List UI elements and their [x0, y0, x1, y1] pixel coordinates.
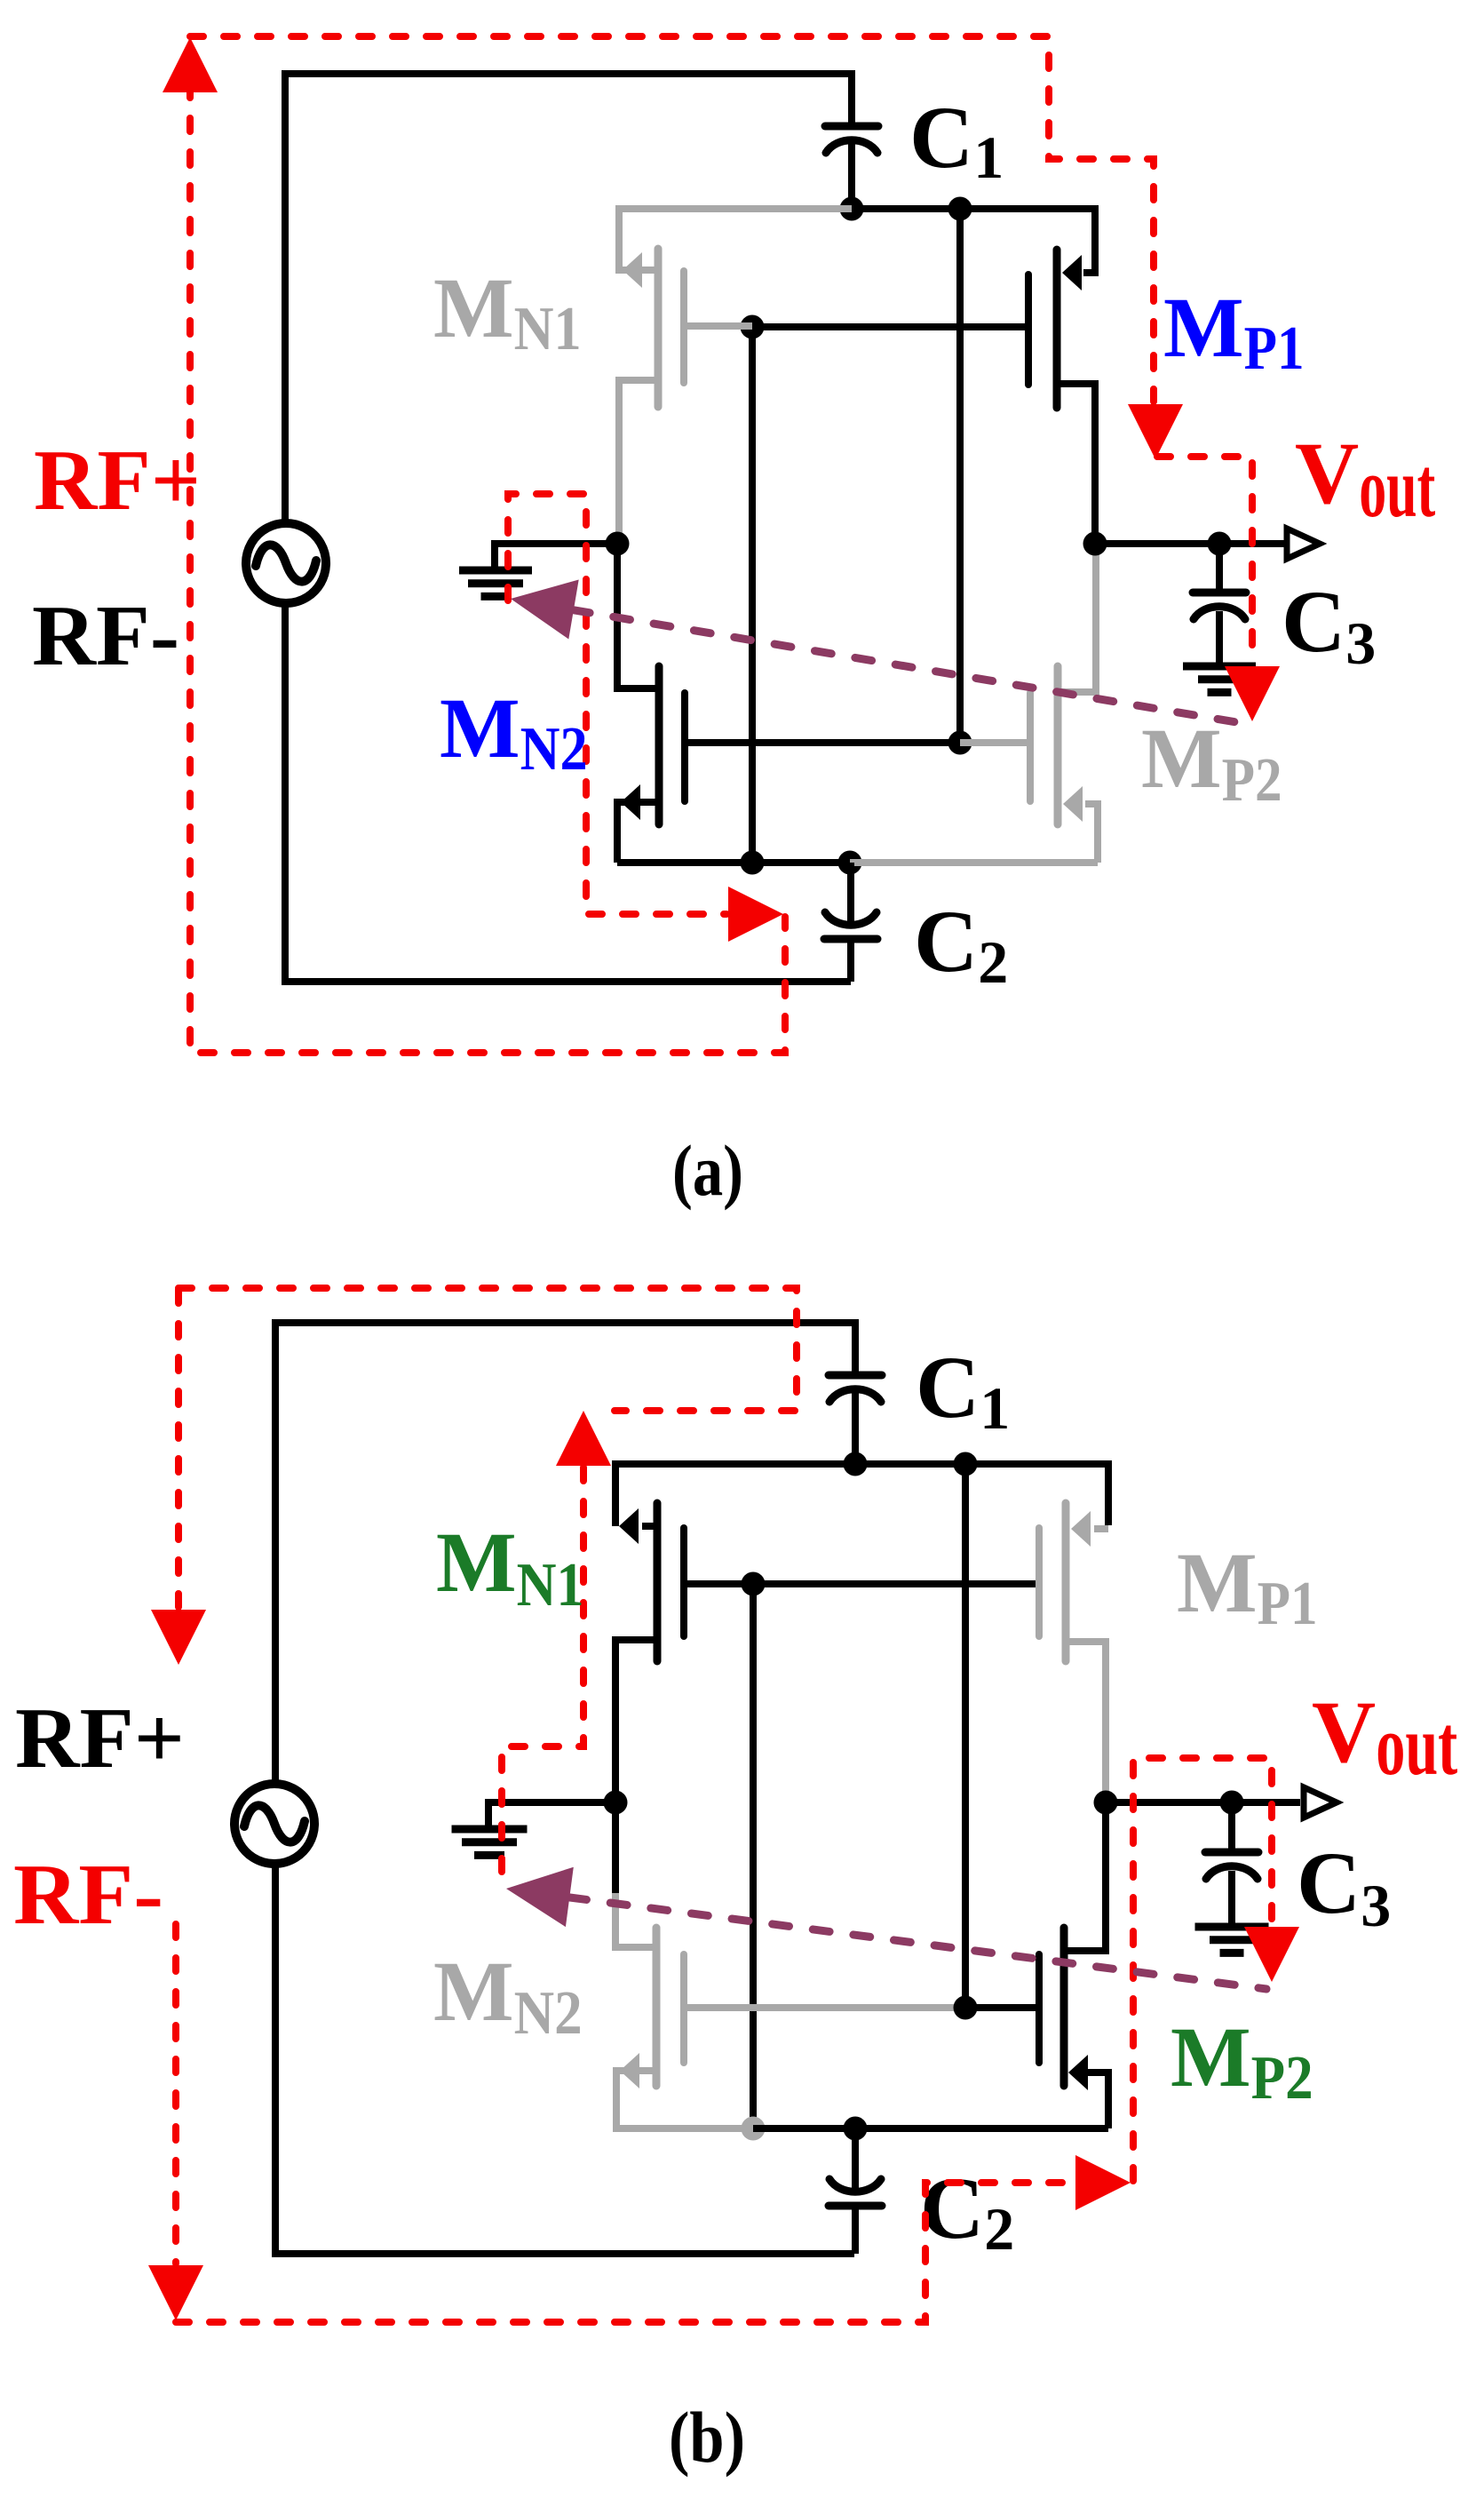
red path top loop b [179, 1288, 797, 1411]
capacitor C3 [1216, 544, 1223, 593]
capacitor C2 b [852, 2128, 859, 2191]
wire vertical x1081 (C1 to gate2) [956, 209, 964, 743]
transistor MN2 source arrow b (gray) [620, 2053, 639, 2088]
transistor MN2 b (gray, inactive) [653, 1928, 661, 2086]
wire MP2 gate b (black part) [965, 2004, 1039, 2011]
wire MP2 gate (gray part) [960, 739, 1030, 746]
node rail-C2 b [844, 2117, 868, 2141]
transistor MP2 gate bar b [1036, 1954, 1043, 2063]
wire MN1 gate b [684, 1580, 1039, 1587]
wire vertical x1087 b [962, 1464, 969, 2008]
svg-text:Vout: Vout [1295, 424, 1435, 535]
svg-text:MP2: MP2 [1171, 2009, 1313, 2112]
wire MP2 drain b [1064, 1802, 1106, 1951]
ground node [606, 532, 630, 556]
node C1 right b [954, 1452, 978, 1476]
node Vout-C3 b [1220, 1791, 1244, 1815]
svg-text:RF+: RF+ [15, 1691, 185, 1786]
node A b (gate1 junction) [742, 1572, 766, 1596]
red arrow into MP1 (down) [1128, 404, 1183, 459]
capacitor C2 [847, 863, 854, 924]
svg-text:RF+: RF+ [34, 433, 201, 528]
transistor MP1 gate bar [1025, 274, 1032, 385]
transistor Q MP1 source arrow [1062, 255, 1082, 290]
svg-text:C3: C3 [1282, 572, 1376, 677]
transistor MN2 source arrow [621, 784, 640, 820]
capacitor C1 b [829, 1372, 882, 1380]
svg-text:MN1: MN1 [436, 1515, 584, 1619]
wire Vout [1095, 540, 1286, 547]
svg-text:Vout: Vout [1312, 1683, 1457, 1793]
wire MP1 drain to Vout b (gray) [1066, 1642, 1106, 1798]
red arrow into C2 (right) [728, 887, 783, 942]
wire vertical x847 (C gate column) [749, 327, 756, 863]
red path RF+ b [175, 1290, 182, 1608]
transistor MN1 source arrow b [619, 1508, 639, 1544]
red path near ground / MN2 gate [508, 494, 726, 914]
ground symbol GND1 b [452, 1829, 528, 1855]
transistor MP1 source arrow b (gray) [1071, 1511, 1091, 1547]
red arrow RF- down b [148, 2265, 203, 2320]
AC source V_RF b [234, 1784, 314, 1864]
transistor MP2 source arrow b [1068, 2055, 1088, 2090]
svg-text:MN1: MN1 [433, 260, 582, 363]
wire ground node to MN2 drain b (black upper) [612, 1802, 619, 1893]
wire RF- bottom rail (source to C2) [285, 602, 851, 982]
red path RF- b [172, 1924, 179, 2263]
wire RF+ top rail (source to C1) [285, 74, 852, 524]
transistor MP2 channel b [1060, 1928, 1068, 2086]
red current path top (C1 to MP1) [190, 36, 1154, 402]
node rail-gate column b (gray) [742, 2117, 766, 2141]
wire MN1 top terminal b [642, 1523, 657, 1530]
ground symbol GND1 [459, 570, 532, 596]
purple arrowhead to ground [511, 580, 579, 640]
node rail-gate column [741, 851, 765, 875]
red arrow at C3 (down) [1225, 666, 1280, 721]
node Vout-C3 [1208, 532, 1232, 556]
wire MN2/MP2 gate line (black part) [685, 739, 960, 746]
svg-text:MN2: MN2 [440, 680, 588, 784]
transistor MN1 source arrow (gray) [623, 252, 642, 288]
node B b (gate2 junction) [954, 1996, 978, 2020]
wire MP2 source (gray) [1085, 804, 1098, 863]
svg-text:(a): (a) [672, 1130, 743, 1211]
svg-text:RF-: RF- [13, 1847, 163, 1942]
wire ground node to MN2 drain [617, 544, 659, 688]
wire ground node to ground symbol b [488, 1802, 615, 1830]
svg-text:MP1: MP1 [1177, 1535, 1318, 1638]
transistor MN1 gate bar b [680, 1528, 687, 1636]
svg-text:MP2: MP2 [1141, 711, 1282, 815]
wire MN2/MP2 gate line b (gray part) [684, 2004, 965, 2011]
ground symbol at C3 b [1195, 1927, 1269, 1953]
wire MN2 source to bottom rail b (gray) [616, 2071, 753, 2128]
wire Vout b [1106, 1799, 1300, 1806]
wire vertical x848 b [750, 1584, 757, 2128]
transistor MP2 (gray, inactive) [1054, 666, 1062, 824]
red current path MP1 to Vout [1157, 457, 1252, 664]
svg-text:MP1: MP1 [1163, 280, 1305, 383]
wire MN1 drain to ground node (gray) [619, 380, 658, 540]
svg-text:C1: C1 [909, 88, 1004, 191]
node rail-C2 [838, 851, 862, 875]
wire ground node to ground symbol [495, 544, 617, 571]
wire MP2 drain (gray) [1058, 547, 1096, 692]
transistor MN1 channel b [654, 1503, 662, 1661]
wire bottom rail (gray part to MP2 source) [850, 859, 1098, 866]
wire MN1 gate (gray) [684, 322, 752, 330]
svg-text:C3: C3 [1297, 1834, 1391, 1939]
purple arrowhead to ground b [506, 1867, 574, 1927]
red arrow into Vout rect b (right) [1075, 2155, 1131, 2210]
svg-text:C2: C2 [914, 892, 1008, 996]
wire bottom rail b (black part) [753, 2125, 1108, 2132]
red arrow down at C3 b [1244, 1927, 1299, 1982]
wire RF+ top rail b (source to C1) [275, 1323, 855, 1786]
wire MN1 drain to ground node b [615, 1640, 657, 1799]
svg-text:C2: C2 [920, 2159, 1014, 2263]
svg-text:MN2: MN2 [433, 1944, 583, 2048]
terminal arrow Vout (open) [1287, 529, 1320, 559]
node C1 left b [844, 1452, 868, 1476]
red arrow RF+ down b [151, 1610, 206, 1665]
terminal arrow Vout b (open) [1304, 1787, 1337, 1818]
wire MP1 gate (to node A) [752, 323, 1028, 330]
wire MP2 source b [1087, 2072, 1108, 2128]
node C1 right [948, 197, 972, 221]
node B (gate2 junction) [948, 731, 972, 755]
svg-text:RF-: RF- [32, 588, 179, 683]
wire to MN2 drain b (gray lower) [615, 1893, 656, 1947]
svg-text:C1: C1 [916, 1338, 1010, 1442]
purple feedback dashed line b [529, 1892, 1266, 1989]
transistor MN2 channel [655, 666, 663, 824]
red arrow up at MN1 b [556, 1411, 611, 1466]
red path bottom to C2 b [176, 2183, 1075, 2322]
wire MN1 source to C1 rail (gray) [619, 209, 852, 270]
ground node b [604, 1791, 628, 1815]
node Vout-MP1 [1083, 532, 1107, 556]
wire MP1 source link b (gray) [1094, 1525, 1108, 1532]
red current path RF+ loop (left) [190, 84, 785, 1053]
red arrow RF+ up [163, 37, 218, 92]
transistor MN2 gate bar [681, 693, 688, 801]
wire C1 node to MP1 source b [855, 1464, 1108, 1525]
capacitor C1 [825, 123, 878, 131]
wire C1 node to MP1 source [852, 209, 1095, 273]
purple feedback dashed line [533, 603, 1247, 724]
transistor MP2 source arrow (gray) [1063, 786, 1083, 822]
transistor MP1 b (gray, inactive) [1062, 1503, 1070, 1661]
node Vout-MP1 b [1094, 1791, 1118, 1815]
node A (gate1 junction) [741, 315, 765, 339]
transistor MP1 channel [1053, 250, 1061, 408]
wire rail to MN1 b [615, 1464, 855, 1526]
capacitor C3 b [1228, 1802, 1235, 1852]
wire RF- bottom rail b (source to C2) [275, 1864, 854, 2254]
red rect Vout b [1133, 1758, 1272, 2181]
wire MN2 source to bottom rail [617, 802, 659, 863]
wire bottom rail (black part) [617, 859, 850, 866]
transistor MN1 (gray, inactive) [655, 249, 663, 407]
node C1 left [840, 197, 864, 221]
wire MP1 drain to Vout [1057, 384, 1095, 544]
red path MN1 to ground b [502, 1468, 583, 1882]
AC source V_RF [246, 523, 326, 603]
svg-text:(b): (b) [669, 2397, 745, 2478]
ground symbol at C3 [1183, 666, 1256, 692]
